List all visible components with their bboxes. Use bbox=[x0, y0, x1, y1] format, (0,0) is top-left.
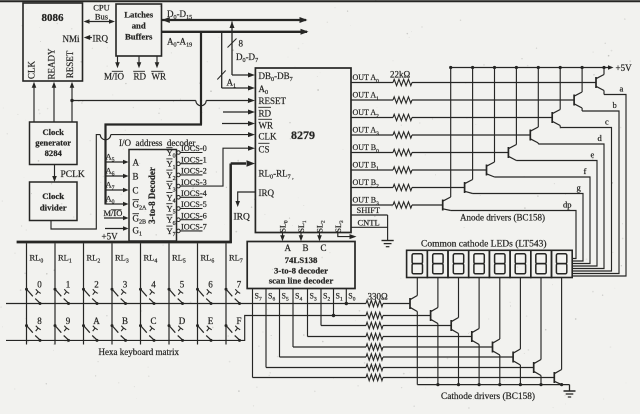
svg-text:CLK: CLK bbox=[27, 60, 37, 79]
svg-text:B: B bbox=[133, 171, 139, 181]
resistor 330ohm row 4 bbox=[366, 333, 383, 339]
wire RD stub bbox=[223, 111, 249, 113]
svg-text:8284: 8284 bbox=[45, 148, 63, 158]
resistor 22k row 2 bbox=[393, 114, 412, 120]
svg-text:Hexa keyboard matrix: Hexa keyboard matrix bbox=[99, 347, 180, 357]
wire A0 to decoder G2A bbox=[106, 203, 125, 205]
svg-text:RD: RD bbox=[134, 72, 147, 82]
svg-text:READY: READY bbox=[47, 48, 57, 79]
svg-text:0: 0 bbox=[37, 280, 42, 290]
seven-segment digit 8 (LT543) bbox=[552, 250, 573, 277]
svg-text:B: B bbox=[303, 243, 309, 253]
wire S6 drop bbox=[265, 289, 267, 368]
svg-text:1: 1 bbox=[66, 280, 71, 290]
svg-text:Common cathode LEDs (LT543): Common cathode LEDs (LT543) bbox=[421, 239, 547, 250]
node rail junction bbox=[559, 66, 562, 69]
wire SHIFT bbox=[351, 214, 388, 216]
wire row 2 to cathode driver bbox=[383, 315, 431, 317]
resistor 22k row 0 bbox=[393, 79, 412, 85]
svg-text:Anode drivers (BC158): Anode drivers (BC158) bbox=[460, 213, 545, 223]
resistor 22k row 7 bbox=[393, 202, 412, 208]
key C switch bbox=[139, 324, 142, 327]
seven-segment digit 2 (LT543) bbox=[427, 250, 448, 277]
ground below CNTL bbox=[382, 240, 394, 242]
key 1 switch bbox=[54, 288, 57, 291]
wire row 6 to cathode driver bbox=[383, 356, 513, 358]
seven-segment digit 6 (LT543) bbox=[510, 250, 531, 277]
wire S3 drop bbox=[307, 289, 309, 337]
svg-text:+5V: +5V bbox=[102, 232, 119, 242]
svg-text:M/IO: M/IO bbox=[104, 72, 125, 82]
svg-text:IRQ: IRQ bbox=[93, 33, 109, 43]
svg-text:A: A bbox=[285, 243, 292, 253]
seven-segment digit 3 (LT543) bbox=[448, 250, 469, 277]
cathode common rail bbox=[417, 384, 569, 386]
svg-text:WR: WR bbox=[259, 121, 274, 131]
wire RESET to 8279 with hop bbox=[72, 100, 196, 102]
svg-text:A: A bbox=[133, 157, 140, 167]
node rail junction bbox=[519, 383, 522, 386]
svg-text:2: 2 bbox=[94, 280, 99, 290]
wire S5 drop bbox=[279, 289, 281, 358]
svg-text:scan line decoder: scan line decoder bbox=[269, 276, 334, 286]
top border line bbox=[0, 0, 640, 2]
3-to-8 decoder U3 bbox=[129, 150, 177, 242]
svg-text:CS: CS bbox=[259, 145, 270, 155]
wire row 7 to cathode driver bbox=[383, 367, 534, 369]
transistor anode driver Q1 (BC158) bbox=[595, 77, 597, 88]
svg-text:c: c bbox=[605, 117, 609, 127]
key 3 switch bbox=[111, 288, 114, 291]
key E switch bbox=[196, 324, 199, 327]
svg-text:Latches: Latches bbox=[124, 10, 154, 20]
svg-text:C: C bbox=[321, 243, 327, 253]
wire PCLK bbox=[54, 165, 56, 180]
svg-text:4: 4 bbox=[151, 280, 156, 290]
key 5 switch bbox=[168, 288, 171, 291]
svg-text:IOCS-5: IOCS-5 bbox=[181, 200, 207, 209]
transistor anode driver Q3 (BC158) bbox=[551, 112, 553, 123]
node rail junction bbox=[537, 66, 540, 69]
node RESET junction bbox=[70, 99, 73, 102]
resistor 330ohm row 2 bbox=[366, 312, 383, 318]
key 6 switch bbox=[196, 288, 199, 291]
node S0 row1 junction bbox=[345, 302, 348, 305]
svg-text:WR: WR bbox=[152, 72, 167, 82]
key B switch bbox=[111, 324, 114, 327]
ground at cathode rail bbox=[569, 385, 571, 391]
wire RL5 column bbox=[168, 243, 170, 344]
wire CLK to 8086 bbox=[33, 84, 35, 122]
wire READY to 8086 bbox=[53, 84, 55, 122]
svg-text:A: A bbox=[93, 316, 100, 326]
svg-text:+5V: +5V bbox=[616, 63, 633, 73]
svg-text:Buffers: Buffers bbox=[125, 32, 153, 42]
node rail junction bbox=[457, 383, 460, 386]
resistor 330ohm row 1 bbox=[366, 300, 383, 306]
seven-segment digit 1 (LT543) bbox=[407, 250, 428, 277]
node rail junction bbox=[560, 383, 563, 386]
svg-text:6: 6 bbox=[208, 280, 213, 290]
svg-text:IOCS-3: IOCS-3 bbox=[181, 178, 207, 187]
wire A7 to decoder C bbox=[106, 189, 125, 191]
wire IRQ to NMI bbox=[86, 37, 92, 39]
svg-text:E: E bbox=[208, 316, 214, 326]
svg-text:IOCS-1: IOCS-1 bbox=[181, 155, 207, 164]
transistor cathode driver Q10 (BC158) bbox=[430, 310, 432, 321]
+5V rail bbox=[451, 67, 611, 69]
wire RL7 column bbox=[225, 243, 227, 344]
wire row 1 to cathode driver bbox=[383, 303, 410, 305]
wire RL1 column bbox=[54, 243, 56, 344]
svg-text:IRQ: IRQ bbox=[234, 213, 251, 223]
wire RL4 column bbox=[140, 243, 142, 344]
key D switch bbox=[168, 324, 171, 327]
svg-text:74LS138: 74LS138 bbox=[285, 255, 318, 265]
resistor 22k row 3 bbox=[393, 132, 412, 138]
svg-text:b: b bbox=[613, 100, 617, 110]
resistor 330ohm row 8 bbox=[366, 374, 383, 380]
wire CNTL bbox=[351, 226, 388, 228]
svg-text:3-to-8 Decoder: 3-to-8 Decoder bbox=[147, 167, 157, 224]
wire segment f bbox=[495, 177, 591, 264]
transistor cathode driver Q9 (BC158) bbox=[409, 298, 411, 309]
svg-text:IOCS-7: IOCS-7 bbox=[181, 223, 207, 232]
svg-text:B: B bbox=[122, 316, 128, 326]
wire S7 drop bbox=[252, 289, 254, 378]
svg-text:CNTL: CNTL bbox=[358, 218, 380, 228]
node rail junction bbox=[581, 66, 584, 69]
wire D0-D7 branch bbox=[231, 22, 233, 76]
keyboard display controller 8279 bbox=[255, 68, 351, 233]
svg-text:e: e bbox=[591, 150, 595, 160]
resistor 22k row 4 bbox=[393, 149, 412, 155]
svg-text:22kΩ: 22kΩ bbox=[390, 69, 411, 79]
address bus A0-A19 bbox=[162, 31, 308, 33]
svg-text:F: F bbox=[236, 316, 241, 326]
svg-text:7: 7 bbox=[237, 280, 242, 290]
data bus D0-D15 bbox=[162, 19, 307, 21]
svg-text:NMi: NMi bbox=[62, 34, 80, 44]
node S1 row2 junction bbox=[332, 314, 335, 317]
node rail junction bbox=[493, 66, 496, 69]
wire A1 branch bbox=[221, 32, 223, 88]
resistor 22k row 6 bbox=[393, 184, 412, 190]
svg-text:IOCS-0: IOCS-0 bbox=[181, 144, 207, 153]
wire row 3 to cathode driver bbox=[383, 325, 451, 327]
svg-text:a: a bbox=[620, 84, 624, 94]
transistor cathode driver Q14 (BC158) bbox=[512, 352, 514, 363]
svg-text:and: and bbox=[132, 21, 146, 31]
svg-text:IOCS-2: IOCS-2 bbox=[181, 167, 207, 176]
svg-text:Bus: Bus bbox=[95, 12, 108, 22]
wire SL3 stub arrow bbox=[338, 233, 351, 237]
svg-text:9: 9 bbox=[66, 316, 71, 326]
key A switch bbox=[82, 324, 85, 327]
wire M/IO to decoder G2B bbox=[104, 217, 125, 219]
slash A1 bbox=[217, 71, 225, 80]
svg-text:330Ω: 330Ω bbox=[368, 291, 389, 301]
clock divider bbox=[30, 182, 78, 221]
node rail junction bbox=[478, 383, 481, 386]
svg-text:C: C bbox=[133, 185, 139, 195]
svg-text:RESET: RESET bbox=[259, 96, 287, 106]
svg-text:Cathode drivers (BC158): Cathode drivers (BC158) bbox=[441, 391, 535, 402]
seven-segment digit 7 (LT543) bbox=[531, 250, 552, 277]
resistor 330ohm row 3 bbox=[366, 322, 383, 328]
wire address lines to decoder bbox=[200, 32, 202, 125]
M/IO RD WR control stubs bbox=[117, 56, 119, 66]
wire RL3 column bbox=[111, 243, 113, 344]
svg-text:PCLK: PCLK bbox=[61, 170, 85, 180]
transistor cathode driver Q12 (BC158) bbox=[471, 331, 473, 342]
key 2 switch bbox=[82, 288, 85, 291]
svg-text:5: 5 bbox=[180, 280, 185, 290]
wire WR stub bbox=[222, 123, 249, 125]
svg-text:IOCS-4: IOCS-4 bbox=[181, 189, 208, 198]
wire row 4 to cathode driver bbox=[383, 336, 472, 338]
wire IOCS-3 to CS bbox=[180, 148, 249, 186]
node rail junction bbox=[602, 66, 605, 69]
wire S2 drop bbox=[320, 289, 322, 326]
latches and buffers U2 bbox=[116, 4, 162, 56]
transistor cathode driver Q13 (BC158) bbox=[492, 342, 494, 353]
wire row 8 to cathode driver bbox=[383, 377, 554, 379]
svg-text:3: 3 bbox=[123, 280, 128, 290]
wire segment e bbox=[516, 161, 597, 267]
wire S1 drop bbox=[333, 289, 335, 316]
transistor cathode driver Q15 (BC158) bbox=[533, 362, 535, 373]
wire segment a bbox=[573, 95, 626, 277]
wire A5 to decoder A bbox=[106, 161, 125, 163]
seven-segment digit 5 (LT543) bbox=[489, 250, 510, 277]
keyboard row line 1 bbox=[6, 303, 366, 305]
svg-text:D: D bbox=[179, 316, 186, 326]
key 9 switch bbox=[54, 324, 57, 327]
svg-text:Clock: Clock bbox=[42, 191, 64, 201]
node rail junction bbox=[498, 383, 501, 386]
wire +5V to decoder G1 bbox=[105, 228, 125, 230]
wire RL bus from keyboard (thick) bbox=[17, 241, 232, 244]
wire RL0 column bbox=[26, 243, 28, 344]
transistor anode driver Q2 (BC158) bbox=[573, 95, 575, 106]
svg-text:8086: 8086 bbox=[42, 12, 65, 24]
wire segment g bbox=[473, 194, 583, 262]
svg-text:RESET: RESET bbox=[65, 50, 75, 78]
clock generator 8284 bbox=[30, 122, 78, 165]
CPU 8086 bbox=[23, 3, 83, 81]
wire RL2 column bbox=[83, 243, 85, 344]
resistor 330ohm row 7 bbox=[366, 364, 383, 370]
svg-text:8: 8 bbox=[239, 39, 244, 49]
svg-text:generator: generator bbox=[35, 138, 71, 148]
wire clock to 8279 CLK with hop bbox=[51, 135, 100, 229]
svg-text:8: 8 bbox=[37, 316, 42, 326]
transistor anode driver Q4 (BC158) bbox=[529, 130, 531, 141]
svg-text:f: f bbox=[584, 166, 587, 176]
svg-text:3-to-8 decoder: 3-to-8 decoder bbox=[274, 266, 328, 276]
svg-text:IOCS-6: IOCS-6 bbox=[181, 211, 207, 220]
resistor 330ohm row 5 bbox=[366, 344, 383, 350]
svg-text:RD: RD bbox=[259, 109, 272, 119]
key 4 switch bbox=[139, 288, 142, 291]
slash 8 bus width bbox=[228, 39, 237, 48]
node rail junction bbox=[449, 66, 452, 69]
scan line decoder 74LS138 bbox=[247, 242, 355, 289]
wire S0 drop bbox=[345, 289, 347, 304]
key 7 switch bbox=[225, 288, 228, 291]
key 0 switch bbox=[25, 288, 28, 291]
key 8 switch bbox=[25, 324, 28, 327]
wire IRQ stub bbox=[238, 192, 256, 203]
key F switch bbox=[225, 324, 228, 327]
svg-text:IRQ: IRQ bbox=[259, 188, 275, 198]
svg-text:CLK: CLK bbox=[259, 132, 278, 142]
wire RL6 column bbox=[197, 243, 199, 344]
wire A6 to decoder B bbox=[106, 175, 125, 177]
resistor 22k row 5 bbox=[393, 167, 412, 173]
svg-text:dp: dp bbox=[563, 200, 572, 210]
wire S4 drop bbox=[292, 289, 294, 348]
node rail junction bbox=[471, 66, 474, 69]
transistor anode driver Q8 (BC158) bbox=[442, 200, 444, 211]
svg-text:8279: 8279 bbox=[291, 128, 315, 142]
resistor 22k row 1 bbox=[393, 97, 412, 103]
wire segment dp bbox=[451, 211, 576, 259]
wire row 5 to cathode driver bbox=[383, 346, 493, 348]
node rail junction bbox=[436, 383, 439, 386]
transistor anode driver Q7 (BC158) bbox=[464, 182, 466, 193]
wire segment d bbox=[538, 144, 604, 269]
node rail junction bbox=[539, 383, 542, 386]
svg-text:C: C bbox=[150, 316, 156, 326]
wire segment c bbox=[560, 128, 611, 272]
resistor 330ohm row 6 bbox=[366, 354, 383, 360]
svg-text:divider: divider bbox=[40, 203, 67, 213]
wire RESET to 8086 bbox=[71, 84, 73, 122]
keyboard row line 2 bbox=[6, 316, 366, 341]
transistor anode driver Q5 (BC158) bbox=[507, 147, 509, 158]
wire segment b bbox=[573, 111, 619, 274]
transistor cathode driver Q16 (BC158) bbox=[553, 372, 555, 383]
svg-text:Clock: Clock bbox=[42, 127, 64, 137]
node rail junction bbox=[515, 66, 518, 69]
transistor cathode driver Q11 (BC158) bbox=[450, 320, 452, 331]
transistor anode driver Q6 (BC158) bbox=[486, 165, 488, 176]
seven-segment digit 4 (LT543) bbox=[469, 250, 490, 277]
